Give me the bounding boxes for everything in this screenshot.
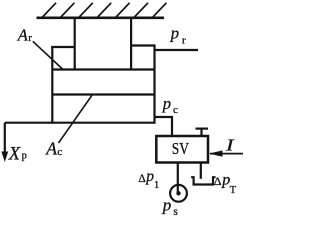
cylinder cup right wall <box>153 45 155 124</box>
SV bottom left pipe to ps <box>177 164 179 193</box>
svg-text:1: 1 <box>154 180 159 191</box>
I arrowhead <box>209 150 223 156</box>
cylinder cup right rim <box>131 44 155 46</box>
svg-text:r: r <box>28 32 32 44</box>
cylinder cup left rim <box>51 46 74 48</box>
svg-text:p: p <box>22 150 27 161</box>
svg-text:A: A <box>17 25 29 44</box>
svg-text:X: X <box>8 144 21 164</box>
svg-text:s: s <box>173 206 178 216</box>
piston rod right edge <box>130 18 132 70</box>
tank T symbol cap <box>196 128 209 130</box>
piston head top face <box>52 68 154 70</box>
svg-text:A: A <box>45 139 57 159</box>
svg-text:Δ: Δ <box>138 173 145 185</box>
Ac leader line <box>59 95 93 144</box>
piston head bottom face <box>52 93 154 95</box>
svg-text:SV: SV <box>172 139 189 158</box>
svg-text:p: p <box>145 168 154 185</box>
svg-text:T: T <box>230 185 237 196</box>
cup bottom / Xp reference line <box>5 122 155 124</box>
svg-text:Δ: Δ <box>214 174 222 188</box>
ceiling hatch strokes <box>42 3 166 18</box>
pr pipe line <box>155 49 198 51</box>
svg-text:I: I <box>225 135 236 154</box>
svg-text:p: p <box>162 196 172 215</box>
tank T symbol stem <box>200 129 202 136</box>
SV bottom right pipe to tank <box>200 164 202 179</box>
svg-text:c: c <box>173 104 178 116</box>
pc pipe stub <box>155 117 173 137</box>
cylinder cup left wall <box>51 46 53 124</box>
piston rod left edge <box>74 18 76 70</box>
Xp arrowhead <box>1 152 8 163</box>
ceiling fixed support line <box>37 16 165 19</box>
ps source center dot <box>176 191 180 195</box>
Ar leader line <box>33 41 63 69</box>
SV box <box>156 136 208 163</box>
ps pressure source circle <box>170 185 187 202</box>
I arrow line <box>210 153 243 155</box>
svg-text:p: p <box>170 24 179 43</box>
svg-text:p: p <box>162 94 171 113</box>
svg-text:r: r <box>182 35 186 47</box>
Xp arrow shaft <box>4 123 6 155</box>
tank U bracket <box>191 177 215 184</box>
svg-text:c: c <box>57 146 62 158</box>
